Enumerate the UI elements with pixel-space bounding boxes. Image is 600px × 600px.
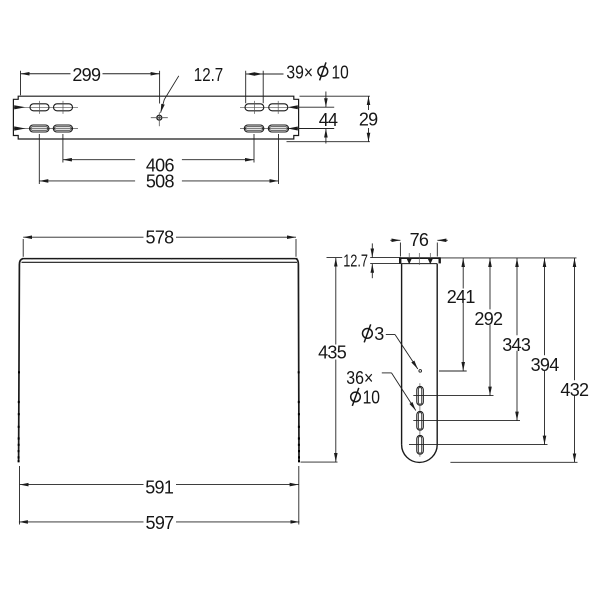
svg-text:12.7: 12.7 [343,250,368,270]
dim 76 right arrow [437,239,447,241]
dim 343 bottom arrow [516,351,518,421]
edge arrow right row2 [288,127,298,131]
side slot 1 outer [417,386,424,405]
dim 394 bottom ext [409,444,548,446]
side top flange right cap [439,257,441,263]
row2 centerline right [240,128,298,130]
svg-text:29: 29 [359,109,378,129]
dim 44 top arrow [325,92,327,108]
dim 44 bottom arrow [325,129,327,144]
svg-text:44: 44 [319,110,338,130]
dim 591/597 ext right [298,466,300,525]
dim 394 top arrow [544,258,546,355]
dim 508 line right [182,180,279,182]
side slot 2 outer [417,411,424,430]
top view bar outline [13,96,298,139]
dim 435 bottom extension [301,461,338,463]
row1 centerline left [14,106,78,108]
dim 591/597 ext left [19,466,21,525]
slot row1 C tick [253,101,255,114]
leader to 39x text [263,73,283,75]
dim 406 ext from row2 slot B [62,134,64,163]
svg-text:39×: 39× [286,62,313,82]
dim 435 bottom arrow [335,360,337,463]
center hole [157,115,162,120]
front top edge tick dots [32,258,286,259]
dim 12.7 top arrow [371,243,373,257]
dim 591 line right [176,484,299,486]
dim 241 top arrow [462,258,464,289]
svg-text:343: 343 [502,335,531,355]
dim 299 line right half [103,73,160,75]
dim 597 line right [176,521,299,523]
side bottom U [402,445,438,463]
slot row2 A outer [30,125,50,132]
dim 432 top arrow [574,258,576,380]
dim 578 ext left [22,239,24,257]
diameter symbol phi10 lower [351,392,361,402]
dim 299 extension right (to hole) [159,71,161,104]
svg-text:292: 292 [474,309,503,329]
svg-text:76: 76 [410,230,429,250]
dim 343 bottom ext [413,420,520,422]
front top edge upper line [22,258,298,260]
dim 406 line right [182,159,254,161]
svg-text:36×: 36× [346,368,373,388]
svg-text:435: 435 [318,343,347,363]
dim 12.7 bottom arrow [371,264,373,278]
edge arrow left row1 [14,105,25,109]
dim 597 line left [19,521,144,523]
slot row2 B outer [53,125,72,132]
svg-text:394: 394 [531,355,560,375]
dim 432 bottom ext [450,461,577,463]
svg-text:591: 591 [145,478,174,498]
side slot 2 inner [418,413,421,429]
slot row2 A inner [31,127,48,130]
dim 12.7 ext (second line left) [370,263,401,265]
dim 578 ext right [295,239,297,257]
dim 29 top arrow [368,96,370,110]
front right edge knots [298,371,300,462]
right dims shared top extension [441,257,577,259]
slot row1 C [245,104,264,111]
front left edge knots [18,371,20,462]
svg-text:508: 508 [146,171,175,191]
svg-text:10: 10 [363,387,380,407]
leader 36x [382,372,392,374]
dim 508 ext from row2 slot A [38,134,40,184]
slot row2 C inner [246,127,263,130]
center hole crosshair horizontal [151,117,168,119]
leader phi3 [386,334,395,336]
slot row1 D tick [277,101,279,114]
svg-text:432: 432 [560,380,589,400]
dim 591 line left [20,484,144,486]
edge arrow left row2 [14,126,25,130]
front right edge [296,259,299,463]
dim 76 left arrow [390,239,400,241]
svg-text:12.7: 12.7 [194,65,223,85]
dim 292 bottom ext [413,395,493,397]
diameter symbol phi3 [363,329,373,339]
slot row1 B tick [62,101,64,114]
slot row2 B inner [55,127,72,130]
dim 435 top extension (shared with 12.7) [327,257,401,259]
dim 406 ext from row2 slot C [253,134,255,163]
dim 241 bottom arrow [462,303,464,371]
dim 508 line left [39,180,135,182]
side left edge [401,264,403,445]
leader 12.7 [161,76,179,113]
front top edge lower line [22,261,298,263]
slot row2 D inner [270,127,288,130]
slot row1 B [54,104,73,111]
slot row1 A [30,104,49,111]
slot row1 D [269,104,288,111]
edge arrow right row1 [288,105,298,109]
dim 292 top arrow [489,258,491,309]
dim 44 row extension right row2 [299,128,334,130]
side top edge arrow 1 [407,259,412,264]
dim 29 top extension [300,95,370,97]
side top flange line [399,257,440,259]
side top edge arrow 2 [428,259,433,264]
dim 508 ext from row2 slot D [278,134,280,184]
side slot 3 inner [418,437,421,453]
dim 435 top arrow [335,258,337,345]
svg-text:241: 241 [447,287,476,307]
dim 578 line left [23,236,143,238]
slot row1 A tick [39,101,41,114]
dim 578 line right [176,236,296,238]
row1 centerline right [240,106,298,108]
dim 432 bottom arrow [574,396,576,463]
center hole crosshair vertical [158,112,160,126]
slot length dim arrows [246,73,255,75]
dim 299 extension left [20,71,22,96]
side slot centerline stubs [419,383,421,457]
dim 299 line left half [21,73,71,75]
svg-text:299: 299 [72,65,101,85]
svg-text:3: 3 [374,324,384,344]
front left edge [19,259,23,463]
slot row2 C outer [244,125,263,132]
phi3 hole [419,370,422,373]
slot length dim ext lines [246,71,264,103]
dim 292 bottom arrow [489,325,491,396]
side top flange left cap [399,257,401,263]
svg-text:597: 597 [146,513,175,533]
svg-text:10: 10 [332,62,349,82]
side right edge [436,264,438,445]
dim 343 top arrow [516,258,518,335]
dim 406 line left [63,159,135,161]
side slot 1 inner [418,388,421,404]
dim 394 bottom arrow [544,371,546,445]
dim 241 bottom ext [439,370,467,372]
diameter symbol phi10 top [318,67,328,77]
side slot 3 outer [417,435,424,454]
dim 44 row extension right row1 [299,106,334,108]
slot row2 D outer [268,125,288,132]
svg-text:578: 578 [146,228,175,248]
dim 29 bottom arrow [368,128,370,142]
row2 centerline left [14,128,78,130]
dim 76 ext lines [400,243,437,257]
side top second line [402,263,438,265]
side top CL ticks [409,253,430,265]
dim 29 bottom extension [287,141,370,143]
